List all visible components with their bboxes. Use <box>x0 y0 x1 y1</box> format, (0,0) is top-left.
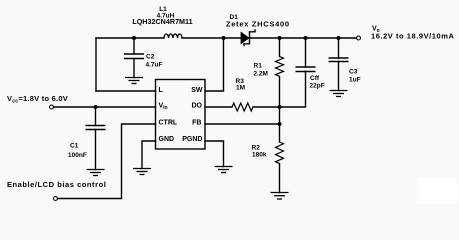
capacitor C2 <box>124 54 163 69</box>
svg-text:2.2M: 2.2M <box>254 71 268 78</box>
wire C1 top <box>95 107 97 126</box>
capacitor Cff <box>296 67 325 90</box>
wire top rail right segment <box>250 37 357 39</box>
svg-text:L: L <box>159 87 164 94</box>
svg-text:1M: 1M <box>236 85 245 92</box>
svg-text:C1: C1 <box>70 143 79 150</box>
ground below C2 <box>125 78 143 84</box>
wire PGND pin <box>205 141 224 167</box>
capacitor C3 <box>329 58 361 84</box>
resistor R2 <box>252 142 284 164</box>
svg-text:Cff: Cff <box>310 75 320 82</box>
wire left branch vertical <box>95 38 97 91</box>
wire R1 bottom to DO node <box>279 77 281 108</box>
op-amp U1 boost converter IC body <box>156 80 206 150</box>
wire DO pin <box>205 106 232 108</box>
wire DO node to FB node <box>279 107 281 124</box>
wire R2 top <box>279 124 281 142</box>
wire top rail left segment <box>96 37 164 39</box>
svg-text:DO: DO <box>192 103 203 110</box>
wire L pin <box>96 90 156 92</box>
svg-text:FB: FB <box>192 120 201 127</box>
node junction Cff/rail <box>304 36 308 40</box>
wire CTRL pin <box>58 124 156 199</box>
svg-text:16.2V to 18.9V/10mA: 16.2V to 18.9V/10mA <box>371 32 454 41</box>
ground below R2 <box>271 193 289 200</box>
resistor R1 <box>254 57 284 78</box>
wire top rail mid segment <box>182 37 241 39</box>
ground below C3 <box>330 91 348 97</box>
node Vcc input terminal <box>7 94 68 109</box>
capacitor C1 <box>68 126 106 160</box>
svg-text:Enable/LCD bias control: Enable/LCD bias control <box>7 180 106 189</box>
svg-text:1uF: 1uF <box>349 77 361 84</box>
svg-text:100nF: 100nF <box>68 152 87 159</box>
wire C2 bottom <box>133 59 135 78</box>
ground below PGND pin <box>215 167 233 173</box>
wire R3 to node <box>253 106 280 108</box>
svg-text:GND: GND <box>159 136 175 143</box>
node junction R1/rail <box>278 36 282 40</box>
wire GND pin <box>142 141 156 169</box>
resistor R3 <box>232 78 253 111</box>
node junction DO/R1 <box>278 105 282 109</box>
svg-text:PGND: PGND <box>182 136 202 143</box>
svg-text:R2: R2 <box>252 145 261 152</box>
wire SW pin <box>205 38 224 91</box>
svg-text:Zetex ZHCS400: Zetex ZHCS400 <box>226 20 290 29</box>
node junction C1/Vcc <box>94 105 98 109</box>
svg-text:C2: C2 <box>146 54 155 61</box>
svg-text:LQH32CN4R7M11: LQH32CN4R7M11 <box>132 17 192 26</box>
svg-text:C3: C3 <box>349 69 358 76</box>
wire C3 top <box>338 38 340 58</box>
wire FB pin <box>205 123 280 125</box>
node Enable input terminal <box>7 180 106 201</box>
node junction SW/rail <box>222 36 226 40</box>
svg-text:CTRL: CTRL <box>159 120 178 127</box>
node junction FB/R1/R2 <box>278 122 282 126</box>
wire C2 top <box>133 38 135 54</box>
wire Cff bottom <box>280 72 306 108</box>
diode D1 Zetex ZHCS400 <box>226 14 290 46</box>
wire Vcc input <box>54 106 156 108</box>
node Vo output terminal <box>357 26 455 41</box>
svg-text:4.7uF: 4.7uF <box>146 62 163 69</box>
node junction C3/rail <box>337 36 341 40</box>
inductor L1 <box>132 6 192 38</box>
wire R2 bottom <box>279 164 281 193</box>
wire Cff top <box>305 38 307 67</box>
svg-text:22pF: 22pF <box>310 83 325 90</box>
wire C1 bottom <box>95 130 97 170</box>
wire R1 top <box>279 38 281 57</box>
ground below C1 <box>87 170 105 176</box>
wire C3 bottom <box>338 62 340 91</box>
node junction C2/rail <box>132 36 136 40</box>
svg-text:R1: R1 <box>254 63 263 70</box>
svg-text:SW: SW <box>191 87 203 94</box>
svg-text:180k: 180k <box>252 152 267 159</box>
ground below GND pin <box>133 169 151 175</box>
